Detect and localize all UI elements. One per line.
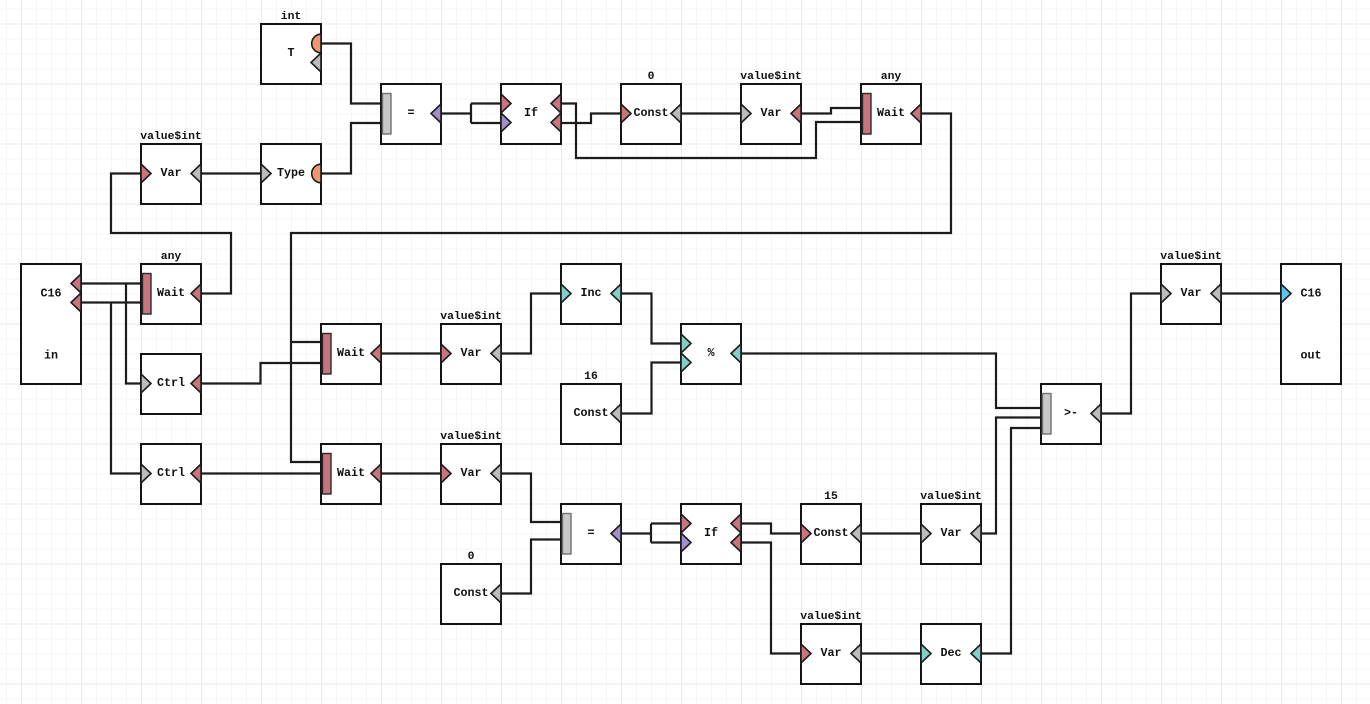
node ConstA xyxy=(621,71,681,144)
svg-text:Wait: Wait xyxy=(157,286,185,300)
wire Dec out to Ym bar input3 xyxy=(981,428,1042,654)
svg-text:value$int: value$int xyxy=(440,431,502,443)
svg-text:value$int: value$int xyxy=(440,311,502,323)
wire =B out fork to IfB inputs xyxy=(621,524,681,543)
node Const16 xyxy=(561,371,621,444)
svg-text:16: 16 xyxy=(584,371,598,383)
node Mod xyxy=(681,324,741,384)
wire Mod out to Ym bar input1 xyxy=(741,354,1042,409)
svg-text:C16: C16 xyxy=(40,287,61,301)
svg-text:15: 15 xyxy=(824,491,838,503)
node Ym xyxy=(1041,384,1101,444)
node =A xyxy=(381,84,441,144)
svg-text:0: 0 xyxy=(648,71,655,83)
svg-text:Var: Var xyxy=(460,466,481,480)
svg-text:in: in xyxy=(44,349,58,363)
svg-text:Wait: Wait xyxy=(337,466,365,480)
svg-text:Dec: Dec xyxy=(940,646,961,660)
wire T out to = input1 xyxy=(321,44,381,104)
svg-text:=: = xyxy=(407,106,414,120)
svg-text:Var: Var xyxy=(820,646,841,660)
wire IfB out2 to VarBot input xyxy=(741,543,801,654)
node =B xyxy=(561,504,621,564)
node C16in xyxy=(21,264,81,384)
node WaitA xyxy=(861,71,921,144)
svg-text:Const: Const xyxy=(633,106,668,120)
node C16out xyxy=(1281,264,1341,384)
svg-text:Ctrl: Ctrl xyxy=(157,466,185,480)
wire Var2 out to =B input1 xyxy=(501,474,562,523)
svg-text:Var: Var xyxy=(160,166,181,180)
svg-text:any: any xyxy=(161,251,182,263)
wire Const0 out to Var input xyxy=(681,112,741,114)
node Ctrl2 xyxy=(141,444,201,504)
node IfB xyxy=(681,504,741,564)
node Const15 xyxy=(801,491,861,564)
wire Const15 out to VarB input xyxy=(861,532,921,534)
wire VarB out to Ym bar input2 xyxy=(981,418,1042,534)
wire Var1 out to Inc input xyxy=(501,294,561,354)
svg-text:Const: Const xyxy=(813,526,848,540)
wire Ctrl2 out to Wait2 bar input2 xyxy=(201,472,322,474)
svg-text:0: 0 xyxy=(468,551,475,563)
svg-text:out: out xyxy=(1300,349,1321,363)
svg-text:Const: Const xyxy=(573,406,608,420)
svg-text:int: int xyxy=(281,11,302,23)
node WaitL xyxy=(141,251,201,324)
wire VarL out to Type input xyxy=(201,172,261,174)
node Inc xyxy=(561,264,621,324)
node Var1 xyxy=(440,311,502,384)
wire C16in p1 to WaitL bar and Ctrl1 xyxy=(81,284,142,384)
node Const0b xyxy=(441,551,501,624)
wire C16in p2 to WaitL bar and Ctrl2 xyxy=(81,303,142,474)
wire Wait(any) out down-left to Wait1 and Wait2 bars xyxy=(291,114,951,463)
wire VarBot out to Dec input xyxy=(861,652,921,654)
svg-text:Wait: Wait xyxy=(877,106,905,120)
node VarBot xyxy=(800,611,862,684)
node VarA xyxy=(740,71,802,144)
wire = out fork to If inputs xyxy=(441,104,501,124)
node VarB xyxy=(920,491,982,564)
wire Wait2 out to Var2 input xyxy=(381,472,441,474)
svg-text:Inc: Inc xyxy=(580,286,601,300)
node Wait1 xyxy=(321,324,381,384)
svg-text:Ctrl: Ctrl xyxy=(157,376,185,390)
svg-text:any: any xyxy=(881,71,902,83)
svg-text:Var: Var xyxy=(1180,286,1201,300)
svg-text:value$int: value$int xyxy=(140,131,202,143)
node Wait2 xyxy=(321,444,381,504)
wire VarTR out to C16out input xyxy=(1221,292,1281,294)
wire Wait1 out to Var1 input xyxy=(381,352,441,354)
svg-text:Type: Type xyxy=(277,166,305,180)
wire Inc out to Mod input1 xyxy=(621,294,681,344)
wire Ym out to VarTR input xyxy=(1101,294,1161,414)
svg-text:T: T xyxy=(287,46,294,60)
node Dec xyxy=(921,624,981,684)
svg-text:value$int: value$int xyxy=(740,71,802,83)
svg-text:Wait: Wait xyxy=(337,346,365,360)
node Ctrl1 xyxy=(141,354,201,414)
svg-text:Var: Var xyxy=(940,526,961,540)
svg-text:value$int: value$int xyxy=(800,611,862,623)
svg-text:C16: C16 xyxy=(1300,287,1321,301)
wire Const0b out to =B input2 xyxy=(501,540,562,594)
node IfA xyxy=(501,84,561,144)
wire Var out to Wait(any) bar input1 xyxy=(801,108,862,114)
wire Const16 out to Mod input2 xyxy=(621,363,681,414)
wire Ctrl1 out to Wait1 bar input2 xyxy=(201,363,322,384)
svg-text:If: If xyxy=(524,106,538,120)
node VarL xyxy=(140,131,202,204)
wire WaitL out wrap to VarL input xyxy=(111,174,231,294)
node T xyxy=(261,11,321,84)
wire If out2 to Const0 input xyxy=(561,114,621,124)
node VarTR xyxy=(1160,251,1222,324)
svg-text:value$int: value$int xyxy=(1160,251,1222,263)
wire IfB out1 to Const15 input xyxy=(741,524,801,534)
node Var2 xyxy=(440,431,502,504)
svg-text:Const: Const xyxy=(453,586,488,600)
svg-text:Var: Var xyxy=(760,106,781,120)
svg-text:Var: Var xyxy=(460,346,481,360)
node Type xyxy=(261,144,321,204)
svg-text:%: % xyxy=(707,346,715,360)
svg-text:>-: >- xyxy=(1064,406,1078,420)
svg-text:=: = xyxy=(587,526,594,540)
wire If out1 to Wait(any) bar input2 xyxy=(561,104,862,159)
svg-text:If: If xyxy=(704,526,718,540)
svg-text:value$int: value$int xyxy=(920,491,982,503)
wire Type out to = input2 xyxy=(321,123,381,174)
